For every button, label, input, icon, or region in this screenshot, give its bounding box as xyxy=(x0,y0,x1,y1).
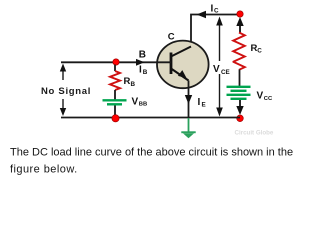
input terminal arrow (down) xyxy=(62,99,64,110)
svg-text:I: I xyxy=(198,97,201,108)
transistor Q1: collector lead xyxy=(171,47,191,57)
wire: VBB to bottom rail xyxy=(114,106,116,118)
wire with current arrow: VCC to bottom node xyxy=(239,100,241,108)
wire: RB to VBB battery xyxy=(114,90,116,100)
node: VBB/bottom-rail junction xyxy=(112,115,119,122)
measurement arrow VCE (double headed) xyxy=(219,24,221,110)
ground xyxy=(188,118,190,132)
svg-text:BB: BB xyxy=(139,102,147,108)
current arrow at top of resistor RC xyxy=(239,23,241,33)
wire: base wire from input to transistor xyxy=(61,61,171,63)
wire: bottom rail xyxy=(61,117,240,119)
svg-text:I: I xyxy=(139,64,142,75)
svg-text:V: V xyxy=(257,91,264,102)
wire: top collector wire xyxy=(191,15,240,48)
svg-text:R: R xyxy=(124,76,131,87)
svg-text:No Signal: No Signal xyxy=(41,86,91,97)
svg-text:B: B xyxy=(139,49,146,60)
svg-text:V: V xyxy=(213,64,220,75)
battery VBB xyxy=(103,100,127,104)
resistor RB xyxy=(110,71,120,90)
svg-text:The DC load line curve of the: The DC load line curve of the above circ… xyxy=(10,147,293,159)
svg-text:CC: CC xyxy=(264,96,273,102)
transistor Q1: base bar xyxy=(170,53,173,75)
input terminal arrow (up) xyxy=(62,69,64,80)
battery VCC xyxy=(227,87,251,99)
svg-text:C: C xyxy=(257,48,262,55)
wire: RC to VCC battery xyxy=(239,70,241,87)
svg-text:C: C xyxy=(214,8,219,15)
svg-text:figure below.: figure below. xyxy=(10,164,78,176)
transistor Q1: body xyxy=(157,41,209,89)
svg-text:Circuit Globe: Circuit Globe xyxy=(235,130,274,137)
svg-text:CE: CE xyxy=(221,69,230,76)
node: base/RB junction xyxy=(113,59,119,65)
node: collector/RC junction xyxy=(237,11,243,17)
wire: base node to RB xyxy=(114,65,116,72)
transistor Q1: emitter lead with arrow xyxy=(171,69,189,81)
current arrow IC on top wire xyxy=(197,11,207,18)
svg-text:C: C xyxy=(168,32,175,43)
wire: emitter to bottom rail xyxy=(188,81,190,118)
svg-text:B: B xyxy=(131,81,136,88)
current arrow IE on emitter wire xyxy=(185,95,192,104)
label VCE xyxy=(212,61,233,74)
svg-text:B: B xyxy=(143,69,148,76)
resistor RC xyxy=(233,33,245,70)
svg-text:V: V xyxy=(132,96,139,107)
current arrow IB on base wire xyxy=(136,59,145,66)
node: VCC/bottom-rail junction xyxy=(237,115,244,122)
svg-text:E: E xyxy=(202,101,206,108)
